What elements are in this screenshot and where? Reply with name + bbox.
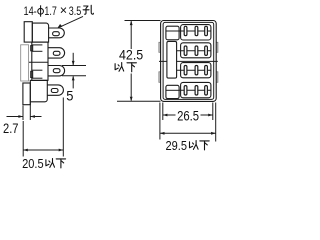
left square row1 [166, 26, 179, 40]
main body [32, 42, 48, 80]
bumps left/right edges [159, 42, 218, 82]
svg-text:14-: 14- [24, 4, 37, 18]
svg-text:×: × [60, 3, 67, 18]
svg-text:29.5: 29.5 [166, 138, 188, 153]
C-channel 2 [31, 70, 43, 78]
dim 42.5 line [130, 21, 132, 49]
svg-text:26.5: 26.5 [177, 107, 199, 123]
bottom ear [23, 83, 30, 105]
top cap [32, 23, 48, 42]
terminal tab 4 [47, 85, 63, 95]
C-channel 1 [31, 45, 43, 51]
terminal groups [181, 25, 211, 98]
body seam line [29, 61, 48, 63]
dim 5 arrows [72, 53, 74, 89]
rail (left protrusion) [21, 45, 29, 81]
terminal tab 1 [48, 28, 64, 38]
svg-text:20.5: 20.5 [22, 156, 43, 171]
narrow rect rows2-3 [167, 41, 177, 78]
dim 20.5: extension lines [22, 121, 24, 157]
bottom cap [30, 80, 47, 101]
dim 42.5: extension lines [125, 20, 161, 22]
dim 2.7: extension lines [22, 106, 24, 121]
dim 26.5: extension lines [162, 103, 164, 121]
inner outline [163, 22, 214, 99]
svg-text:1.7: 1.7 [44, 4, 57, 18]
outer body [161, 21, 217, 102]
group centerline inside [181, 31, 211, 90]
terminal tab 2 [48, 48, 65, 58]
svg-text:42.5: 42.5 [119, 47, 143, 63]
seam line across [159, 60, 218, 62]
svg-text:2.7: 2.7 [3, 121, 19, 136]
top ear [24, 22, 32, 42]
svg-text:3.5: 3.5 [69, 4, 82, 18]
ticks [184, 26, 207, 95]
row centerlines [166, 31, 210, 90]
svg-text:5: 5 [66, 87, 73, 103]
leader line [60, 16, 83, 27]
terminal tab 3 [48, 66, 65, 76]
dim 5: extension lines [62, 65, 86, 67]
left square row4 [166, 85, 179, 98]
dim 29.5: extension lines [159, 103, 161, 140]
